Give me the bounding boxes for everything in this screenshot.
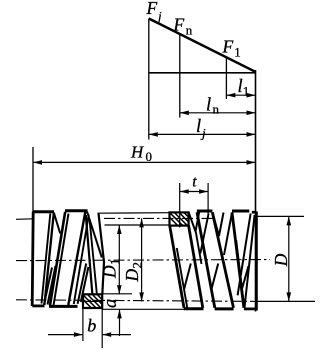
svg-text:1: 1 xyxy=(243,84,250,99)
Fn ordinate line xyxy=(179,34,181,118)
svg-text:l: l xyxy=(196,117,201,137)
coil 1 right companion xyxy=(196,232,202,265)
svg-text:F: F xyxy=(173,15,185,35)
far side of end coil xyxy=(238,214,251,296)
svg-text:l: l xyxy=(206,96,211,116)
label F1 xyxy=(222,37,241,60)
label Fn xyxy=(173,15,193,38)
svg-text:n: n xyxy=(186,23,193,38)
F1 ordinate line xyxy=(225,58,227,100)
svg-text:a: a xyxy=(101,299,121,308)
coil 2 right edge xyxy=(212,212,233,307)
bottom coil center line (dash-dot) xyxy=(16,300,256,302)
dimension D2 xyxy=(122,218,145,301)
end coil right inner edge xyxy=(42,214,51,304)
top flat coil 3 xyxy=(232,210,249,213)
back coil line from second flat xyxy=(87,212,102,258)
dimension b xyxy=(48,308,131,348)
dimension D1 xyxy=(100,225,123,294)
spring right edge extension (thick lower part) xyxy=(255,213,257,312)
wire cut section at break (hatched) xyxy=(170,212,189,225)
dimension l1 xyxy=(226,77,255,99)
coil 3 left edge xyxy=(232,212,244,307)
spring axis center line (dash-dot) xyxy=(16,260,270,261)
cut half-coil right edge xyxy=(90,219,97,295)
dimension H0 xyxy=(33,143,256,165)
dimension lj xyxy=(149,117,256,141)
first coil right edge xyxy=(189,226,203,308)
coil 3 inner left edge xyxy=(236,240,244,308)
bottom flat of second coil xyxy=(49,305,78,308)
first coil left edge xyxy=(170,226,184,308)
center line segment through cut section xyxy=(82,300,103,302)
baseline of force diagram xyxy=(149,72,256,74)
svg-text:D: D xyxy=(271,253,291,267)
svg-text:D: D xyxy=(122,269,142,283)
dimension D xyxy=(271,216,291,301)
second coil right edge to cut section xyxy=(68,212,85,305)
D1 top extension line xyxy=(105,224,170,226)
back line top gap 2 xyxy=(213,213,224,237)
bottom outer extension line (break link) xyxy=(102,308,184,310)
svg-text:b: b xyxy=(87,316,96,336)
right boundary of left portion xyxy=(99,214,105,295)
coil 2 inner left edge xyxy=(202,240,215,308)
svg-text:F: F xyxy=(222,37,234,57)
Fj ordinate line xyxy=(148,19,150,140)
left ground end edge xyxy=(32,212,33,307)
top flat of end coil xyxy=(33,210,54,213)
top flat coil 2 xyxy=(197,210,213,213)
cut half-coil left edge xyxy=(86,215,93,295)
wire cut section (hatched) xyxy=(83,294,102,308)
svg-text:2: 2 xyxy=(129,262,144,269)
far side of end coil 2 xyxy=(245,215,255,308)
bottom flat coil 2 xyxy=(215,307,234,310)
top outer extension line (break link) xyxy=(98,212,170,215)
svg-text:1: 1 xyxy=(107,259,122,266)
top flat of second coil xyxy=(65,209,88,212)
svg-text:H: H xyxy=(130,143,145,162)
right extension line (spring end) xyxy=(255,70,257,213)
top coil center line (dash-dot) xyxy=(16,218,33,221)
svg-text:1: 1 xyxy=(234,45,241,60)
a top extension line xyxy=(102,293,132,295)
svg-text:t: t xyxy=(192,174,197,191)
second coil left inner edge xyxy=(54,214,69,306)
top flat end corner xyxy=(252,211,257,214)
second coil left edge xyxy=(50,212,65,305)
coil 1 inner left edge xyxy=(177,248,187,308)
back coil line bottom gap 2b xyxy=(81,267,89,302)
coil 2 inside far line xyxy=(200,214,208,254)
dimension ln xyxy=(180,96,256,117)
inner edge companion xyxy=(74,215,89,305)
coil 2 left edge xyxy=(197,212,215,307)
bottom flat of end coil xyxy=(32,304,44,307)
svg-text:D: D xyxy=(100,265,120,279)
back line top gap 1 xyxy=(189,212,199,232)
dimension t xyxy=(180,174,208,228)
back coil line top gap xyxy=(54,213,60,234)
right ground end edge xyxy=(255,212,258,311)
label Fj xyxy=(146,0,163,24)
back line bottom gap 1 xyxy=(184,264,191,290)
force-deflection characteristic line xyxy=(149,19,256,72)
back line bottom gap 2 xyxy=(211,264,218,290)
back line bottom gap 3 xyxy=(242,266,249,290)
svg-text:F: F xyxy=(146,0,158,18)
D top extension line xyxy=(257,215,305,217)
dimension a xyxy=(101,299,122,336)
bottom flat coil 1 xyxy=(184,307,204,310)
back line from coil3 top xyxy=(224,213,232,256)
svg-text:n: n xyxy=(213,102,220,117)
back coil line bottom gap 1b xyxy=(44,268,52,305)
end coil right edge xyxy=(44,213,53,305)
back coil line bottom gap 2 xyxy=(78,264,87,304)
D bottom extension line xyxy=(256,300,315,302)
H0 left extension line xyxy=(32,147,34,213)
svg-text:0: 0 xyxy=(146,149,153,164)
back coil line bottom gap 1 xyxy=(48,266,56,305)
bottom flat coil 3 xyxy=(244,307,257,310)
